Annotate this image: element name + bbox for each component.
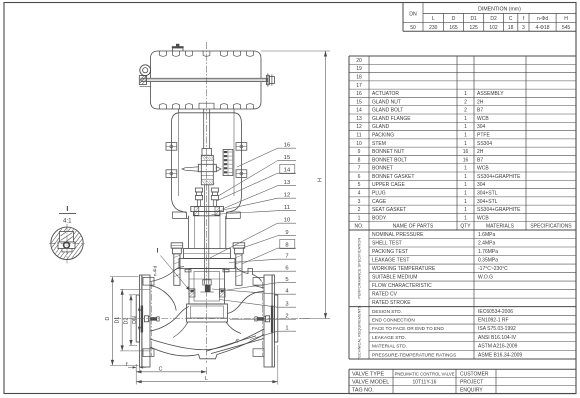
svg-text:18: 18	[508, 25, 514, 31]
svg-text:SS304: SS304	[477, 141, 492, 147]
svg-text:6: 6	[358, 174, 361, 180]
svg-text:1: 1	[285, 326, 288, 332]
svg-text:1: 1	[464, 116, 467, 122]
svg-text:D2: D2	[490, 16, 497, 22]
svg-text:END CONNECTION: END CONNECTION	[372, 318, 415, 323]
travel pointer wings	[182, 167, 221, 172]
svg-text:6: 6	[285, 266, 288, 272]
svg-text:GLAND FLANGE: GLAND FLANGE	[372, 116, 411, 122]
svg-text:CAGE: CAGE	[372, 199, 387, 205]
svg-text:ENQUIRY: ENQUIRY	[460, 387, 483, 393]
gland nut and bolts	[195, 188, 218, 206]
gland flange with packing	[191, 206, 224, 215]
svg-text:4-Φ18: 4-Φ18	[536, 25, 550, 31]
svg-text:D2: D2	[124, 318, 130, 325]
left flange bolt	[144, 316, 159, 322]
dimension D	[105, 277, 138, 366]
svg-text:D1: D1	[470, 16, 477, 22]
seat gaskets	[189, 289, 225, 297]
svg-text:1: 1	[464, 166, 467, 172]
dimension DN	[132, 306, 141, 331]
body left flange	[136, 275, 154, 367]
svg-text:16: 16	[356, 91, 362, 97]
svg-text:SEAT GASKET: SEAT GASKET	[372, 207, 406, 213]
svg-text:VALVE TYPE: VALVE TYPE	[352, 371, 384, 377]
callout 14 leader	[217, 164, 297, 201]
svg-text:BONNET: BONNET	[372, 166, 393, 172]
svg-text:1: 1	[464, 174, 467, 180]
svg-text:DN: DN	[409, 12, 417, 18]
centerline horizontal	[114, 318, 310, 320]
svg-text:PACKING TEST: PACKING TEST	[372, 249, 408, 255]
svg-text:1: 1	[464, 199, 467, 205]
svg-text:18: 18	[356, 75, 362, 81]
svg-text:1: 1	[464, 215, 467, 221]
svg-text:SPECIFICATIONS: SPECIFICATIONS	[530, 224, 572, 230]
svg-text:WCB: WCB	[477, 166, 489, 172]
svg-text:-17°C~230°C: -17°C~230°C	[478, 266, 508, 272]
svg-text:5: 5	[358, 182, 361, 188]
callout 4 leader	[212, 289, 296, 295]
bonnet gasket strips	[185, 269, 229, 272]
svg-text:2H: 2H	[477, 99, 484, 105]
svg-text:0.35MPa: 0.35MPa	[478, 258, 498, 264]
svg-text:DESIGN STD.: DESIGN STD.	[372, 309, 402, 314]
svg-text:2.4MPa: 2.4MPa	[478, 241, 495, 247]
svg-text:D: D	[452, 16, 456, 22]
svg-text:L: L	[205, 376, 208, 382]
svg-text:4: 4	[358, 191, 361, 197]
svg-text:10: 10	[284, 218, 290, 224]
svg-text:TECHNICAL REQUIREMENTS: TECHNICAL REQUIREMENTS	[357, 305, 362, 360]
svg-text:BONNET BOLT: BONNET BOLT	[372, 157, 407, 163]
svg-text:MATERIALS: MATERIALS	[486, 224, 515, 230]
svg-text:3: 3	[522, 25, 525, 31]
callout 16 leader	[237, 143, 296, 167]
svg-text:WCB: WCB	[477, 116, 489, 122]
svg-text:5: 5	[285, 277, 288, 283]
svg-text:SS304+GRAPHITE: SS304+GRAPHITE	[477, 174, 521, 180]
callout 15 leader	[219, 155, 296, 195]
svg-text:11: 11	[356, 133, 361, 139]
actuator vent on top	[172, 44, 184, 51]
svg-text:20: 20	[356, 58, 362, 64]
bonnet neck	[189, 212, 226, 284]
svg-text:NO.: NO.	[355, 224, 364, 230]
svg-text:RATED STROKE: RATED STROKE	[372, 300, 411, 306]
svg-text:H: H	[317, 178, 323, 182]
svg-text:WORKING TEMPERATURE: WORKING TEMPERATURE	[372, 266, 436, 272]
cage box	[173, 269, 241, 338]
svg-text:n-Φd: n-Φd	[537, 16, 548, 22]
svg-text:H: H	[564, 16, 568, 22]
svg-text:I: I	[157, 248, 159, 255]
callout 8 leader	[242, 239, 297, 264]
svg-text:D1: D1	[115, 317, 121, 324]
svg-text:SUITABLE MEDIUM: SUITABLE MEDIUM	[372, 275, 417, 281]
svg-text:NAME OF PARTS: NAME OF PARTS	[393, 224, 434, 230]
centerline vertical	[206, 42, 208, 363]
performance specification table	[349, 230, 576, 307]
svg-text:f: f	[126, 362, 128, 368]
svg-text:W.O.G: W.O.G	[478, 275, 493, 281]
callout 10 leader	[210, 218, 296, 258]
svg-text:11: 11	[284, 205, 290, 211]
svg-text:545: 545	[562, 25, 571, 31]
svg-text:7: 7	[358, 166, 361, 172]
callout 7 leader	[229, 254, 296, 263]
svg-text:19: 19	[356, 66, 362, 72]
svg-text:STEM: STEM	[372, 141, 386, 147]
svg-text:NOMINAL PRESSURE: NOMINAL PRESSURE	[372, 232, 424, 238]
svg-text:1.76MPa: 1.76MPa	[478, 249, 498, 255]
actuator eyebolt left	[139, 65, 151, 87]
svg-text:10: 10	[356, 141, 362, 147]
svg-text:FACE TO FACE OR END TO END: FACE TO FACE OR END TO END	[372, 326, 444, 331]
svg-text:230: 230	[429, 25, 438, 31]
svg-text:8: 8	[358, 157, 361, 163]
svg-text:12: 12	[284, 193, 290, 199]
svg-text:50: 50	[410, 25, 416, 31]
svg-text:VALVE MODEL: VALVE MODEL	[352, 379, 389, 385]
svg-text:304+STL: 304+STL	[477, 191, 498, 197]
dimension D1	[115, 289, 150, 351]
svg-text:13: 13	[284, 180, 290, 186]
svg-text:FLOW CHARACTERISTIC: FLOW CHARACTERISTIC	[372, 283, 432, 289]
svg-text:ACTUATOR: ACTUATOR	[372, 91, 399, 97]
svg-text:17: 17	[356, 83, 362, 89]
svg-text:2: 2	[285, 314, 288, 320]
svg-text:4: 4	[285, 289, 289, 295]
svg-text:ISA S75.03-1992: ISA S75.03-1992	[478, 326, 516, 332]
body right flange	[253, 275, 278, 367]
svg-text:2: 2	[358, 207, 361, 213]
parts list table	[349, 56, 576, 230]
dimension L	[136, 345, 278, 385]
svg-text:1: 1	[464, 191, 467, 197]
lower stem	[204, 185, 206, 212]
plug	[200, 280, 213, 292]
svg-text:n-Φd: n-Φd	[153, 265, 158, 276]
svg-text:125: 125	[469, 25, 478, 31]
dimension C	[136, 366, 207, 374]
bonnet stud bolts and nuts	[171, 243, 245, 285]
svg-text:1: 1	[464, 91, 467, 97]
callout 2 leader	[230, 314, 296, 320]
svg-text:9: 9	[358, 149, 361, 155]
svg-text:L: L	[432, 16, 435, 22]
svg-text:PRESSURE-TEMPERATURE RATINGS: PRESSURE-TEMPERATURE RATINGS	[372, 352, 456, 357]
svg-text:B7: B7	[477, 108, 483, 114]
technical requirements table	[349, 305, 576, 360]
svg-text:PACKING: PACKING	[372, 133, 394, 139]
dimension table top-right	[403, 3, 576, 32]
actuator rod end nut right	[267, 73, 275, 86]
svg-text:1: 1	[464, 182, 467, 188]
svg-text:4:1: 4:1	[63, 218, 72, 225]
detail I marker on valve	[157, 248, 190, 291]
svg-text:CUSTOMER: CUSTOMER	[460, 371, 489, 377]
callout 13 leader	[223, 180, 297, 209]
svg-text:3: 3	[285, 302, 288, 308]
callout 3 leader	[220, 300, 297, 308]
svg-text:PERFORMANCE SPECIFICATION: PERFORMANCE SPECIFICATION	[357, 238, 362, 299]
svg-text:3: 3	[358, 199, 361, 205]
stem coupling block	[198, 155, 216, 185]
svg-text:UPPER CAGE: UPPER CAGE	[372, 182, 405, 188]
svg-text:DN: DN	[132, 316, 138, 324]
svg-text:TAG NO.: TAG NO.	[352, 387, 374, 393]
svg-text:2: 2	[464, 108, 467, 114]
right flange bolt	[255, 316, 270, 322]
svg-text:15: 15	[284, 155, 290, 161]
svg-text:2H: 2H	[477, 149, 484, 155]
svg-text:f: f	[523, 16, 525, 22]
svg-text:C: C	[159, 366, 163, 372]
bonnet flange	[179, 249, 235, 269]
svg-text:EN1092-1 RF: EN1092-1 RF	[478, 318, 509, 324]
body outline	[150, 267, 264, 359]
svg-text:LEAKAGE STD.: LEAKAGE STD.	[372, 335, 406, 340]
svg-text:1: 1	[464, 141, 467, 147]
svg-text:14: 14	[284, 168, 291, 174]
svg-text:1.6MPa: 1.6MPa	[478, 232, 495, 238]
callout 9 leader	[241, 230, 296, 248]
svg-text:8: 8	[285, 243, 288, 249]
svg-text:15: 15	[356, 99, 362, 105]
svg-text:16: 16	[463, 149, 469, 155]
svg-text:C: C	[509, 16, 513, 22]
title block table	[349, 369, 576, 393]
callout 5 leader	[227, 277, 296, 290]
svg-text:MATERIAL STD.: MATERIAL STD.	[372, 344, 407, 349]
svg-text:7: 7	[285, 254, 288, 260]
svg-text:GLAND BOLT: GLAND BOLT	[372, 108, 403, 114]
svg-text:102: 102	[489, 25, 498, 31]
svg-text:PLUG: PLUG	[372, 191, 386, 197]
svg-text:16: 16	[463, 157, 469, 163]
svg-text:14: 14	[356, 108, 362, 114]
actuator stem	[202, 109, 212, 155]
svg-text:12: 12	[356, 124, 362, 130]
svg-text:WCB: WCB	[477, 215, 489, 221]
svg-text:1: 1	[464, 124, 467, 130]
svg-text:16: 16	[284, 143, 290, 149]
svg-text:1: 1	[464, 133, 467, 139]
svg-text:PTFE: PTFE	[477, 133, 490, 139]
svg-text:13: 13	[356, 116, 362, 122]
svg-text:9: 9	[285, 230, 288, 236]
svg-text:ASTM A216-2009: ASTM A216-2009	[478, 344, 518, 350]
dimension H	[261, 51, 330, 319]
svg-text:B7: B7	[477, 157, 483, 163]
callout 6 leader	[225, 266, 297, 272]
callout 1 leader	[250, 326, 296, 340]
travel indicator scale plate	[223, 150, 233, 176]
detail view I 4:1	[23, 206, 111, 264]
actuator diaphragm flange rod	[141, 78, 267, 81]
svg-text:SHELL TEST: SHELL TEST	[372, 241, 402, 247]
yoke side bolts	[166, 143, 247, 178]
svg-text:D: D	[105, 316, 111, 320]
callout 11 leader	[212, 205, 297, 214]
svg-text:1: 1	[464, 207, 467, 213]
svg-text:2: 2	[464, 99, 467, 105]
dimension f	[126, 362, 146, 371]
svg-text:304+STL: 304+STL	[477, 199, 498, 205]
svg-text:BONNET GASKET: BONNET GASKET	[372, 174, 414, 180]
svg-text:QTY: QTY	[460, 224, 471, 230]
svg-text:10T11Y-16: 10T11Y-16	[413, 379, 437, 385]
svg-text:DIMENTION (mm): DIMENTION (mm)	[478, 7, 521, 13]
svg-text:I: I	[66, 206, 68, 213]
svg-text:304: 304	[477, 182, 486, 188]
svg-text:RATED CV: RATED CV	[372, 292, 398, 298]
svg-text:LEAKAGE TEST: LEAKAGE TEST	[372, 258, 409, 264]
callout 12 leader	[216, 193, 296, 212]
svg-text:PROJECT: PROJECT	[460, 379, 483, 385]
svg-text:GLAND NUT: GLAND NUT	[372, 99, 401, 105]
svg-text:BONNET NUT: BONNET NUT	[372, 149, 404, 155]
actuator U16 diaphragm housing	[151, 51, 262, 109]
svg-text:ASME B16.34-2009: ASME B16.34-2009	[478, 352, 522, 358]
svg-text:BODY: BODY	[372, 215, 387, 221]
svg-text:304: 304	[477, 124, 486, 130]
dimension D2	[124, 295, 137, 346]
yoke	[171, 109, 241, 219]
svg-text:PNEUMATIC CONTROL VALVE: PNEUMATIC CONTROL VALVE	[395, 371, 455, 376]
svg-text:ASSEMBLY: ASSEMBLY	[477, 91, 504, 97]
svg-text:IEC60534-2006: IEC60534-2006	[478, 309, 513, 315]
svg-text:ANSI B16.104-IV: ANSI B16.104-IV	[478, 335, 517, 341]
svg-text:GLAND: GLAND	[372, 124, 390, 130]
svg-text:165: 165	[449, 25, 458, 31]
svg-text:SS304+GRAPHITE: SS304+GRAPHITE	[477, 207, 521, 213]
svg-text:1: 1	[358, 215, 361, 221]
svg-text:m: m	[234, 338, 241, 345]
